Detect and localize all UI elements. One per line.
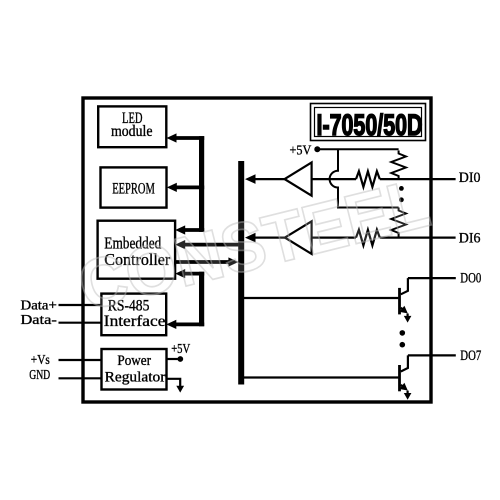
wire buffer to resistor R4 xyxy=(312,237,356,239)
wire Power Regulator +5V output xyxy=(167,358,178,360)
wire Controller to isolation bar (arrow into bar) xyxy=(175,260,231,264)
wire +5V rail xyxy=(317,148,398,150)
svg-text:Data+: Data+ xyxy=(21,299,57,314)
node dots between DI channels xyxy=(399,186,404,191)
svg-text:DO0: DO0 xyxy=(460,271,481,287)
wire buffer to resistor R3 xyxy=(312,178,356,180)
wire +Vs to Power Regulator xyxy=(59,359,102,361)
svg-text:Data-: Data- xyxy=(21,313,58,328)
svg-text:EEPROM: EEPROM xyxy=(112,181,155,198)
wire base drive DO0 from bar xyxy=(244,297,398,299)
wire DO7 to terminal xyxy=(408,354,456,356)
svg-text:DO7: DO7 xyxy=(460,348,481,364)
wire branch into EEPROM with arrow xyxy=(174,185,204,189)
wire Power Regulator ground with down arrow xyxy=(167,379,181,386)
svg-text:module: module xyxy=(111,123,153,140)
LED module box xyxy=(98,106,166,147)
resistor R3 (series DI0) xyxy=(356,171,380,187)
wire branch into Controller top with arrow xyxy=(183,228,205,232)
svg-text:DI6: DI6 xyxy=(459,230,481,246)
wire branch into RS-485 with arrow xyxy=(174,322,204,326)
RS-485 Interface box xyxy=(101,294,166,336)
svg-text:GND: GND xyxy=(29,368,50,383)
svg-text:+5V: +5V xyxy=(171,342,190,357)
wire GND to Power Regulator xyxy=(59,377,102,379)
wire branch into LED module with arrow xyxy=(174,136,204,140)
svg-text:+5V: +5V xyxy=(290,143,312,158)
wire DO0 to terminal xyxy=(408,277,456,279)
resistor R1 (vertical pull-up DI0) xyxy=(391,151,406,180)
bus wire controller to RS-485 (vertical) xyxy=(199,272,204,327)
node +5V dot xyxy=(314,146,320,152)
op-amp buffer U2 (DI0) xyxy=(285,163,312,196)
wire branch into Controller bottom with arrow xyxy=(183,272,205,276)
Embedded Controller box U1 xyxy=(98,221,176,279)
transistor Q1 (DO0) xyxy=(399,278,411,323)
title box I-7050/50D xyxy=(311,104,426,143)
resistor R4 (series DI6) xyxy=(356,230,380,246)
svg-text:Regulator: Regulator xyxy=(105,369,166,385)
svg-text:I-7050/50D: I-7050/50D xyxy=(317,109,423,142)
node +5V dot xyxy=(177,356,183,362)
transistor Q2 (DO7) xyxy=(399,355,411,399)
wire +5V branch down with hop over DI0 line xyxy=(330,149,399,207)
wire DI0 buffer output into bar with arrow xyxy=(252,178,285,180)
bus wire controller to LED/EEPROM (vertical) xyxy=(199,136,204,232)
svg-text:Power: Power xyxy=(117,353,151,369)
wire base drive DO7 from bar xyxy=(244,376,398,378)
wire isolation bar to Controller (arrow into controller) xyxy=(183,243,239,247)
Power Regulator box xyxy=(102,349,167,390)
resistor R2 (vertical pull-up DI6) xyxy=(391,208,406,238)
op-amp buffer U3 (DI6) xyxy=(285,221,312,254)
EEPROM box xyxy=(101,167,167,207)
outer border frame of module xyxy=(83,98,431,402)
svg-text:DI0: DI0 xyxy=(459,170,481,186)
wire Data+ to RS-485 xyxy=(59,304,102,306)
wire DI6 to terminal xyxy=(380,237,456,239)
isolation barrier bar xyxy=(238,161,244,385)
wire DI0 to terminal xyxy=(380,178,456,180)
wire DI6 buffer output into bar with arrow xyxy=(252,237,285,239)
wire Data- to RS-485 xyxy=(59,322,102,324)
svg-text:+Vs: +Vs xyxy=(31,353,50,368)
node dots between DO channels xyxy=(400,330,406,336)
